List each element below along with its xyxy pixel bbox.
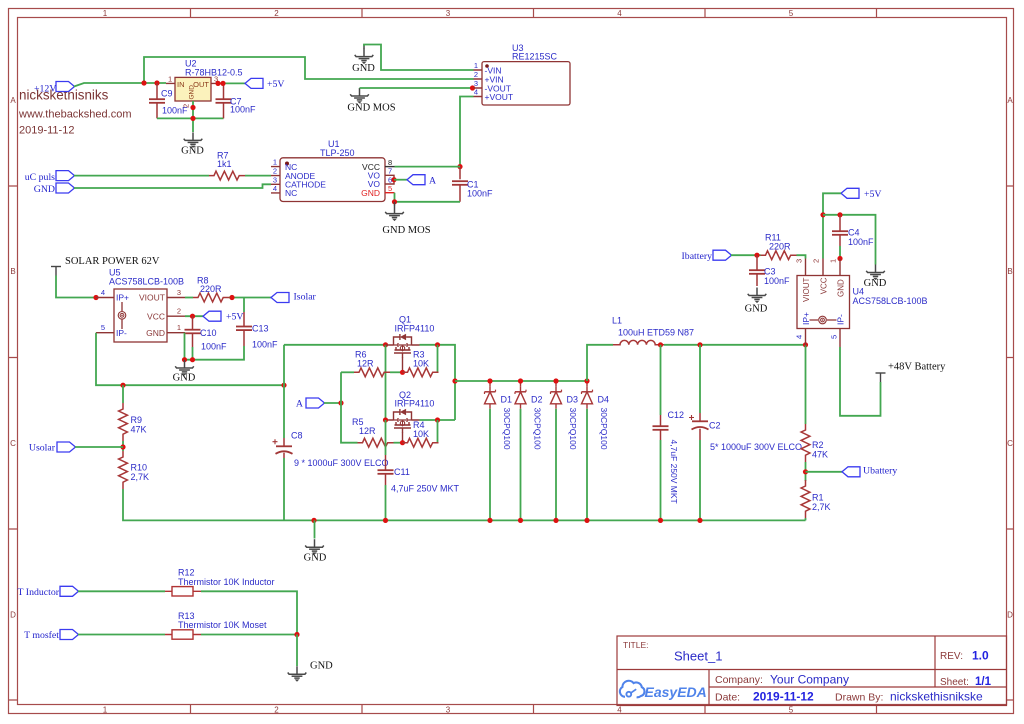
wire R9 to R10 junction — [122, 441, 124, 451]
svg-text:C12: C12 — [668, 410, 685, 420]
capacitor C12 — [653, 410, 685, 504]
header annotation texts — [18, 88, 132, 137]
svg-text:100nF: 100nF — [764, 276, 790, 286]
svg-text:1: 1 — [474, 61, 478, 70]
node junction at 96,297.5 — [93, 295, 98, 300]
svg-text:100nF: 100nF — [230, 105, 256, 115]
wire C13 to ground run — [185, 346, 245, 360]
svg-text:OUT: OUT — [193, 80, 209, 89]
wire L1 to output node — [664, 344, 806, 346]
svg-text:GND: GND — [304, 553, 327, 564]
transistor Q1 IRFP4110 — [386, 315, 435, 373]
wire A flag to gate column — [324, 402, 341, 404]
svg-text:A: A — [429, 176, 436, 187]
wire C2 to bottom rail — [699, 440, 701, 520]
capacitor C7 — [216, 83, 257, 118]
net flag T mosfet — [24, 630, 78, 642]
wire C12 to bottom rail — [660, 440, 662, 520]
wire U5 IP- to solar minus rail — [96, 333, 284, 386]
transistor Q2 IRFP4110 — [386, 390, 435, 443]
svg-text:4: 4 — [795, 335, 804, 339]
node junction at 394.5,201.8 — [392, 199, 397, 204]
node junction at 490,520.4 — [487, 518, 492, 523]
node junction at 218,83.4 — [215, 81, 220, 86]
wire R2 to Ubattery node — [805, 462, 807, 481]
wire U1 GND pin5 down — [395, 193, 461, 202]
node junction at 385.5,344.8 — [383, 342, 388, 347]
node junction at 587,520.4 — [584, 518, 589, 523]
svg-text:Drawn By:: Drawn By: — [835, 692, 883, 704]
svg-text:D3: D3 — [567, 395, 579, 405]
svg-text:1: 1 — [177, 323, 181, 332]
resistor R11 — [761, 233, 797, 260]
svg-text:GND MOS: GND MOS — [347, 103, 395, 114]
svg-text:100uH ETD59 N87: 100uH ETD59 N87 — [618, 328, 694, 338]
wire GND flag to U1 CATHODE — [74, 184, 271, 188]
svg-text:GND MOS: GND MOS — [382, 225, 430, 236]
wire +12V to U2 IN — [74, 83, 166, 87]
svg-text:220R: 220R — [769, 242, 791, 252]
svg-text:2,7K: 2,7K — [131, 472, 150, 482]
svg-text:2019-11-12: 2019-11-12 — [19, 125, 74, 137]
svg-text:1.0: 1.0 — [972, 649, 989, 663]
capacitor C4 — [832, 215, 874, 247]
svg-text:C: C — [1007, 439, 1013, 448]
svg-text:IP-: IP- — [835, 314, 845, 325]
node junction at 757,255.2 — [754, 253, 759, 258]
node junction at 587,381 — [584, 378, 589, 383]
svg-text:VCC: VCC — [147, 311, 165, 321]
wire R8 to Isolar — [229, 297, 271, 299]
svg-text:GND: GND — [189, 85, 196, 100]
net flag Isolar — [271, 292, 317, 303]
wire D3 anode down — [555, 409, 557, 521]
svg-text:Sheet:: Sheet: — [940, 677, 969, 688]
svg-text:GND: GND — [146, 328, 165, 338]
svg-text:3: 3 — [795, 259, 804, 263]
node junction at 123,447 — [120, 444, 125, 449]
svg-text:L1: L1 — [612, 316, 622, 326]
svg-text:100nF: 100nF — [848, 237, 874, 247]
svg-text:T mosfet: T mosfet — [24, 630, 59, 641]
net flag A drive — [296, 398, 325, 410]
inductor L1 — [612, 316, 694, 345]
svg-text:B: B — [10, 267, 15, 276]
node junction at 297,634.5 — [294, 632, 299, 637]
svg-text:2: 2 — [812, 259, 821, 263]
svg-text:1: 1 — [273, 158, 277, 167]
svg-text:GND: GND — [310, 661, 333, 672]
thermistor R13 — [165, 611, 267, 639]
svg-text:Date:: Date: — [715, 692, 740, 704]
wire C11 to bottom rail — [385, 485, 387, 520]
wire Usolar to divider — [75, 446, 123, 448]
resistor R7 — [209, 151, 245, 181]
svg-text:C8: C8 — [291, 431, 303, 441]
wire C2 branch — [699, 345, 701, 413]
frame row letters sides — [10, 96, 1013, 620]
svg-text:Ubattery: Ubattery — [863, 466, 897, 477]
ground MOS symbol mid — [347, 88, 395, 114]
svg-text:1k1: 1k1 — [217, 159, 232, 169]
wire +5V rail to right gnd — [823, 215, 876, 265]
wire R3 right leg up — [437, 345, 439, 373]
node junction at 284,385.2 — [281, 383, 286, 388]
svg-text:RE1215SC: RE1215SC — [512, 52, 558, 62]
capacitor C9 — [149, 83, 188, 118]
diode D3 — [551, 381, 579, 450]
svg-text:GND: GND — [173, 373, 196, 384]
node junction at 660.5,520.4 — [658, 518, 663, 523]
svg-text:C3: C3 — [764, 267, 776, 277]
svg-text:47K: 47K — [812, 450, 828, 460]
svg-text:1/1: 1/1 — [975, 676, 992, 688]
svg-text:Usolar: Usolar — [29, 443, 56, 454]
node junction at 700,344.8 — [697, 342, 702, 347]
capacitor C11 — [378, 455, 460, 494]
svg-text:47K: 47K — [131, 424, 147, 434]
resistor R1 — [801, 480, 830, 518]
ground symbol under C3 — [745, 288, 768, 315]
svg-text:ACS758LCB-100B: ACS758LCB-100B — [853, 296, 928, 306]
node junction at 520.5,381 — [518, 378, 523, 383]
wire R7 to U1 ANODE — [245, 175, 271, 177]
svg-text:220R: 220R — [200, 284, 222, 294]
wire gnd column down — [296, 635, 298, 667]
wire U2 GND pin down — [192, 101, 194, 132]
wire solar plus column — [283, 345, 285, 438]
svg-text:GND: GND — [34, 184, 55, 195]
svg-text:uC puls: uC puls — [25, 172, 55, 183]
net flag A at U1 — [407, 175, 436, 187]
svg-text:D: D — [1007, 611, 1013, 620]
svg-text:5: 5 — [789, 706, 794, 715]
svg-text:100nF: 100nF — [201, 342, 227, 352]
wire R12 to gnd column — [201, 591, 297, 634]
wire R4 right leg up — [437, 420, 439, 443]
resistor R3 — [403, 350, 439, 377]
wire R10 to bottom rail — [123, 489, 806, 520]
wire C8 to bottom rail — [283, 458, 285, 520]
svg-text:1: 1 — [103, 9, 108, 18]
capacitor C8 electrolytic — [273, 431, 389, 469]
svg-text:C: C — [10, 439, 16, 448]
capacitor C1 — [452, 167, 493, 202]
svg-text:5: 5 — [101, 323, 105, 332]
IC U2 R-78HB12-0.5 — [166, 59, 243, 109]
node junction at 455,381 — [452, 378, 457, 383]
wire U1 VCC to C1 node — [395, 166, 461, 168]
node junction at 385.5,420 — [383, 417, 388, 422]
node junction at 157,83 — [154, 80, 159, 85]
node junction at 192.5,359.7 — [190, 357, 195, 362]
svg-text:4,7uF 250V MKT: 4,7uF 250V MKT — [669, 440, 679, 504]
wire switch node to diode rail — [455, 380, 587, 382]
wire U3 +VOUT down to VCC node — [460, 97, 474, 167]
wire U2 out to +5V — [216, 82, 245, 84]
wire Q2 right to source column — [420, 419, 456, 421]
svg-text:100nF: 100nF — [467, 189, 493, 199]
svg-text:4,7uF 250V MKT: 4,7uF 250V MKT — [391, 484, 460, 494]
svg-text:A: A — [1007, 96, 1013, 105]
svg-text:IP+: IP+ — [116, 293, 129, 303]
wire D1 anode down — [489, 409, 491, 521]
resistor R2 — [801, 424, 828, 462]
svg-text:3: 3 — [177, 288, 181, 297]
svg-text:2,7K: 2,7K — [812, 502, 831, 512]
wire D2 anode down — [520, 409, 522, 521]
net flag Usolar — [29, 442, 76, 454]
wire Q1 right to source column — [420, 345, 456, 420]
ground symbol at bottom rail — [304, 520, 327, 563]
svg-text:+VOUT: +VOUT — [485, 92, 514, 102]
svg-text:4: 4 — [273, 184, 277, 193]
svg-text:GND: GND — [864, 278, 887, 289]
node junction at 805.5,471.8 — [803, 469, 808, 474]
wire IP- to battery terminal — [840, 347, 881, 416]
wire drain column Q1-Q2 — [385, 345, 387, 420]
svg-text:12R: 12R — [357, 359, 374, 369]
node junction at 123,385.2 — [120, 383, 125, 388]
svg-text:2: 2 — [474, 70, 478, 79]
frame column numbers top — [103, 9, 794, 715]
svg-text:REV:: REV: — [940, 651, 963, 662]
thermistor R12 — [165, 568, 275, 597]
svg-text:GND: GND — [361, 188, 380, 198]
svg-text:2019-11-12: 2019-11-12 — [753, 690, 814, 704]
svg-text:2: 2 — [274, 706, 279, 715]
wire GND to U3 -VIN — [364, 45, 474, 71]
svg-text:7: 7 — [388, 167, 392, 176]
wire T mosfet to R13 — [78, 634, 165, 636]
svg-text:10K: 10K — [413, 359, 429, 369]
svg-text:C9: C9 — [161, 89, 173, 99]
svg-text:10K: 10K — [413, 429, 429, 439]
wire R5 to gate node — [394, 442, 403, 444]
svg-text:A: A — [296, 399, 303, 410]
svg-text:1: 1 — [829, 259, 838, 263]
svg-text:TITLE:: TITLE: — [623, 640, 649, 650]
node junction at 490,381 — [487, 378, 492, 383]
wire U5 VIOUT to R8 — [185, 297, 193, 299]
svg-text:+5V: +5V — [226, 312, 244, 323]
node junction at 192.5,316.2 — [190, 314, 195, 319]
node junction at 232,297.5 — [229, 295, 234, 300]
svg-text:www.thebackshed.com: www.thebackshed.com — [18, 109, 132, 121]
net flag +12V — [34, 82, 75, 95]
wire R9 top lead — [122, 385, 124, 403]
battery terminal — [876, 373, 886, 382]
node junction at 402.5,442.7 — [400, 440, 405, 445]
title block frame — [617, 636, 1007, 706]
node junction at 385.5,520.4 — [383, 518, 388, 523]
node junction at 394,179.7 — [391, 177, 396, 182]
resistor R9 — [119, 403, 147, 441]
wire solar terminal to U5 IP+ — [56, 276, 96, 298]
svg-text:C11: C11 — [394, 467, 410, 477]
node junction at 437.5,344.8 — [435, 342, 440, 347]
svg-text:D2: D2 — [531, 395, 543, 405]
svg-text:1: 1 — [168, 75, 172, 84]
svg-text:5: 5 — [388, 184, 392, 193]
svg-text:EasyEDA: EasyEDA — [645, 684, 707, 700]
wire uC puls to R7 — [74, 175, 209, 177]
svg-text:4: 4 — [617, 9, 622, 18]
svg-text:30CPQ100: 30CPQ100 — [533, 408, 543, 450]
resistor R6 — [354, 350, 390, 377]
svg-text:D4: D4 — [598, 395, 610, 405]
wire Ibattery to R11 — [731, 254, 761, 256]
wire Ubattery tap — [806, 471, 843, 473]
svg-text:Ibattery: Ibattery — [682, 251, 713, 262]
ground symbol thermistors — [288, 661, 333, 682]
resistor R4 — [403, 420, 439, 447]
svg-text:9 * 1000uF 300V ELCO: 9 * 1000uF 300V ELCO — [294, 458, 389, 468]
svg-text:2: 2 — [177, 307, 181, 316]
svg-text:GND: GND — [836, 279, 845, 297]
svg-text:IP+: IP+ — [801, 312, 811, 325]
IC U1 TLP-250 — [271, 139, 395, 202]
svg-text:5* 1000uF 300V ELCO: 5* 1000uF 300V ELCO — [710, 442, 802, 452]
svg-text:Your Company: Your Company — [770, 673, 849, 687]
node junction at 437.5,420 — [435, 417, 440, 422]
wire D4 anode down — [586, 409, 588, 521]
svg-text:SOLAR POWER 62V: SOLAR POWER 62V — [65, 256, 160, 267]
svg-text:8: 8 — [388, 158, 392, 167]
node junction at 660.5,344.8 — [658, 342, 663, 347]
node junction at 193,107.5 — [190, 105, 195, 110]
wire C12 branch — [660, 345, 662, 415]
node junction at 460,166.6 — [457, 164, 462, 169]
svg-text:ACS758LCB-100B: ACS758LCB-100B — [109, 277, 184, 287]
wire GND MOS to U3 -VOUT — [360, 87, 474, 89]
wire U2 ground bottom — [157, 117, 224, 119]
svg-text:Company:: Company: — [715, 674, 763, 686]
wire U5 VCC to +5V — [185, 315, 203, 317]
node junction at 556,520.4 — [553, 518, 558, 523]
svg-text:U4: U4 — [853, 287, 865, 297]
node junction at 556,381 — [553, 378, 558, 383]
svg-text:+48V Battery: +48V Battery — [888, 362, 946, 373]
ground MOS symbol under U1 — [382, 202, 430, 236]
svg-text:C10: C10 — [200, 328, 217, 338]
svg-text:T Inductor: T Inductor — [18, 587, 60, 598]
wire VO to A flag — [394, 179, 407, 181]
wire T Inductor to R12 — [78, 590, 165, 592]
svg-text:2: 2 — [182, 104, 191, 108]
wire drain column below Q2 — [385, 420, 387, 455]
capacitor C10 — [185, 316, 228, 351]
diode D4 — [582, 381, 610, 450]
node junction at 144,83 — [141, 80, 146, 85]
node junction at 341,403 — [338, 400, 343, 405]
svg-text:C4: C4 — [848, 228, 860, 238]
node junction at 520.5,520.4 — [518, 518, 523, 523]
svg-text:4: 4 — [101, 288, 105, 297]
svg-text:IN: IN — [177, 80, 185, 89]
svg-text:VIOUT: VIOUT — [802, 277, 811, 302]
node junction at 840,258.5 — [837, 256, 842, 261]
IC U4 ACS758LCB-100B — [795, 259, 928, 348]
wire C13 branch down — [243, 298, 245, 313]
node junction at 184.5,359.7 — [182, 357, 187, 362]
wire R13 to gnd column — [201, 634, 297, 636]
svg-text:TLP-250: TLP-250 — [320, 148, 355, 158]
wire top drain line — [284, 344, 386, 346]
wire A column to R6 — [341, 371, 354, 373]
ground symbol under U2 — [181, 132, 204, 156]
node junction at 805.5,344.8 — [803, 342, 808, 347]
svg-text:A: A — [10, 96, 16, 105]
svg-text:nickskethisnikske: nickskethisnikske — [890, 690, 983, 704]
svg-text:GND: GND — [352, 63, 375, 74]
node junction at 402.5,372.3 — [400, 370, 405, 375]
svg-text:100nF: 100nF — [252, 340, 278, 350]
IC U3 RE1215SC — [474, 43, 571, 105]
svg-text:30CPQ100: 30CPQ100 — [568, 408, 578, 450]
svg-text:3: 3 — [446, 9, 451, 18]
svg-text:1: 1 — [103, 706, 108, 715]
node junction at 223,83.4 — [220, 81, 225, 86]
svg-text:4: 4 — [474, 88, 478, 97]
capacitor C2 electrolytic — [689, 413, 802, 452]
svg-text:5: 5 — [789, 9, 794, 18]
net flag uC puls — [25, 171, 75, 183]
resistor R8 — [193, 276, 229, 302]
svg-text:12R: 12R — [359, 426, 376, 436]
diode D2 — [515, 381, 543, 450]
node junction at 193,118.4 — [190, 116, 195, 121]
svg-text:3: 3 — [446, 706, 451, 715]
wire gate drive column — [341, 372, 358, 442]
wire +5V to VCC pin — [823, 193, 841, 258]
svg-text:GND: GND — [181, 146, 204, 157]
svg-text:Thermistor 10K Inductor: Thermistor 10K Inductor — [178, 577, 275, 587]
svg-text:+5V: +5V — [267, 79, 285, 90]
svg-text:2: 2 — [273, 167, 277, 176]
svg-text:Isolar: Isolar — [294, 292, 317, 303]
svg-text:C13: C13 — [252, 324, 269, 334]
wire U5 GND pin down — [184, 333, 186, 360]
svg-text:+5V: +5V — [864, 189, 882, 200]
node junction at 823,214.8 — [820, 212, 825, 217]
net flag +5V at U5 — [203, 311, 244, 323]
net flag Ibattery — [682, 250, 732, 262]
svg-text:IP-: IP- — [116, 328, 127, 338]
EasyEDA logo — [620, 681, 707, 700]
ground symbol under U5 — [173, 360, 196, 384]
svg-text:IRFP4110: IRFP4110 — [395, 324, 435, 334]
svg-text:IRFP4110: IRFP4110 — [395, 399, 435, 409]
svg-text:D: D — [10, 611, 16, 620]
IC U5 ACS758LCB-100B — [96, 268, 185, 343]
node junction at 840,214.8 — [837, 212, 842, 217]
capacitor C3 — [749, 255, 790, 286]
wire output down to R2 — [805, 345, 807, 424]
svg-text:Sheet_1: Sheet_1 — [674, 649, 722, 664]
resistor R5 — [352, 417, 394, 447]
svg-text:C2: C2 — [709, 421, 721, 431]
node junction at 314,520.4 — [311, 518, 316, 523]
svg-text:D1: D1 — [501, 395, 513, 405]
capacitor C13 — [236, 312, 278, 350]
svg-text:NC: NC — [285, 188, 297, 198]
svg-text:VCC: VCC — [819, 277, 828, 294]
net flag Ubattery — [842, 466, 897, 477]
ground symbol top — [352, 45, 375, 75]
wire R11 to VIOUT pin — [797, 255, 806, 258]
svg-text:5: 5 — [830, 335, 839, 339]
